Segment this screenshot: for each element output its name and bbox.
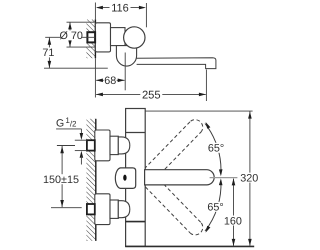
dimension 68 — [94, 58, 96, 97]
svg-text:Ø 70: Ø 70 — [59, 30, 82, 42]
spout pivot housing (top view) — [116, 46, 136, 67]
svg-text:320: 320 — [240, 172, 258, 184]
dimension 255 — [205, 70, 207, 102]
wall (top view, hatched) — [86, 20, 95, 59]
spout swivel outline lower (dashed) — [141, 172, 206, 238]
upper inlet escutcheon — [95, 130, 110, 161]
spout swivel outline upper (dashed) — [141, 117, 206, 183]
svg-text:65°: 65° — [208, 143, 224, 155]
dimension 150±15 — [57, 145, 75, 147]
dimension 116 — [94, 3, 96, 21]
lower inlet union nut — [110, 200, 118, 218]
temperature knob — [115, 168, 135, 189]
lower inlet escutcheon — [95, 194, 110, 225]
dimension 160 — [210, 177, 238, 179]
dimension 71 — [45, 36, 95, 38]
upper inlet connector dome — [118, 137, 130, 154]
valve body (top view) — [111, 28, 126, 46]
svg-text:71: 71 — [42, 47, 54, 59]
lower inlet connector dome — [118, 201, 130, 218]
dimension Ø70 — [67, 21, 95, 23]
upper inlet union nut — [110, 136, 118, 154]
svg-text:65°: 65° — [207, 202, 223, 214]
label 65 deg lower — [207, 202, 224, 212]
dimension 320 — [145, 110, 252, 112]
faucet body (front view) — [126, 109, 146, 247]
knob dot — [123, 175, 126, 181]
svg-text:116: 116 — [111, 2, 129, 14]
svg-text:68: 68 — [104, 75, 116, 87]
wall (front view, hatched) — [86, 119, 95, 241]
svg-text:150±15: 150±15 — [43, 174, 79, 186]
G1/2 leader arrows — [80, 129, 82, 134]
swivel arc upper — [205, 124, 221, 175]
label 65 deg upper — [208, 143, 225, 153]
swivel arc lower — [205, 181, 221, 232]
mixer head circle (top view) — [124, 27, 145, 48]
spout (top view) — [137, 58, 216, 69]
lower G1/2 nipple — [87, 204, 95, 214]
G1/2 nipple (top view) — [87, 32, 95, 42]
spout (front view) — [145, 170, 215, 185]
upper G1/2 nipple — [87, 140, 95, 150]
base line — [125, 245, 254, 247]
escutcheon flange (top view) — [95, 23, 110, 52]
svg-text:255: 255 — [142, 89, 161, 101]
svg-text:160: 160 — [224, 215, 242, 227]
